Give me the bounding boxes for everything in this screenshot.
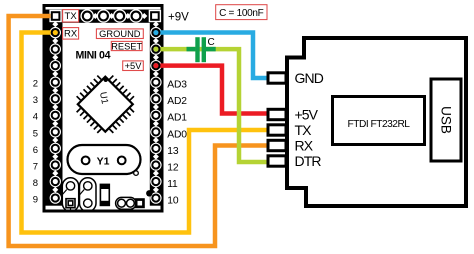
svg-text:AD2: AD2 bbox=[167, 96, 187, 107]
svg-text:13: 13 bbox=[167, 146, 179, 157]
svg-text:AD1: AD1 bbox=[167, 113, 187, 124]
svg-text:C: C bbox=[208, 37, 215, 48]
svg-text:4: 4 bbox=[33, 112, 38, 123]
svg-text:GROUND: GROUND bbox=[99, 29, 141, 39]
svg-text:USB: USB bbox=[439, 106, 454, 134]
svg-text:MINI 04: MINI 04 bbox=[76, 50, 111, 62]
svg-text:+5V: +5V bbox=[295, 107, 319, 123]
svg-text:U1: U1 bbox=[97, 91, 110, 105]
svg-text:+9V: +9V bbox=[168, 12, 189, 24]
svg-text:+5V: +5V bbox=[125, 61, 143, 71]
svg-text:AD0: AD0 bbox=[167, 129, 187, 140]
svg-text:6: 6 bbox=[33, 145, 38, 156]
svg-text:5: 5 bbox=[33, 128, 38, 139]
svg-text:C = 100nF: C = 100nF bbox=[219, 8, 263, 19]
svg-text:RX: RX bbox=[64, 29, 78, 40]
svg-text:RX: RX bbox=[295, 138, 314, 154]
svg-text:9: 9 bbox=[33, 194, 38, 205]
svg-text:FTDI FT232RL: FTDI FT232RL bbox=[348, 119, 411, 130]
svg-text:11: 11 bbox=[167, 179, 178, 190]
svg-text:2: 2 bbox=[33, 79, 38, 90]
svg-text:DTR: DTR bbox=[295, 153, 322, 169]
svg-text:RESET: RESET bbox=[111, 41, 142, 51]
svg-text:3: 3 bbox=[33, 95, 38, 106]
svg-text:10: 10 bbox=[167, 195, 179, 206]
svg-text:TX: TX bbox=[295, 122, 313, 138]
svg-text:Y1: Y1 bbox=[97, 155, 110, 167]
svg-text:GND: GND bbox=[295, 70, 324, 86]
svg-text:TX: TX bbox=[65, 11, 78, 22]
svg-text:AD3: AD3 bbox=[167, 80, 187, 91]
svg-text:12: 12 bbox=[167, 162, 179, 173]
svg-text:7: 7 bbox=[33, 161, 38, 172]
svg-text:8: 8 bbox=[33, 178, 38, 189]
